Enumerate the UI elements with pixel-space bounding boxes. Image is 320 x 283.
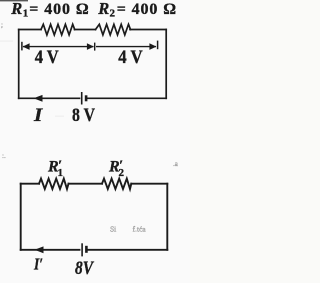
battery B1: long plate bbox=[81, 92, 83, 105]
label R'2 bbox=[108, 158, 125, 179]
svg-text:;: ; bbox=[1, 21, 3, 29]
svg-text:= 400 Ω: = 400 Ω bbox=[29, 1, 89, 18]
svg-text:1: 1 bbox=[23, 8, 29, 20]
svg-text:Si: Si bbox=[110, 225, 116, 234]
resistor R2 (zigzag) bbox=[96, 24, 131, 35]
svg-text:I: I bbox=[33, 105, 43, 126]
battery B1: short thick plate bbox=[85, 95, 88, 101]
label R2 = 400 ohm bbox=[97, 0, 177, 20]
svg-text:4 V: 4 V bbox=[118, 48, 143, 68]
svg-text:8V: 8V bbox=[75, 259, 94, 279]
wire: top circuit top side segments bbox=[19, 29, 41, 31]
svg-text::.: :. bbox=[2, 152, 6, 160]
wire: top circuit left wall bbox=[18, 30, 20, 99]
label R'1 bbox=[47, 158, 63, 179]
wire: bottom circuit top side segments bbox=[21, 183, 39, 185]
svg-text:8 V: 8 V bbox=[72, 106, 96, 126]
dimension arrowhead left bbox=[23, 43, 30, 50]
current arrow I on bottom wire bbox=[34, 95, 43, 102]
dimension tick left bbox=[21, 42, 23, 51]
label R1 = 400 ohm bbox=[10, 0, 89, 20]
svg-text:R: R bbox=[97, 0, 109, 18]
dimension arrowhead mid-left bbox=[87, 43, 94, 50]
resistor R'1 (zigzag) bbox=[39, 179, 69, 189]
wire: bottom circuit left wall bbox=[20, 184, 22, 250]
svg-text:2: 2 bbox=[110, 8, 116, 20]
wire: top circuit bottom side (battery gap) bbox=[19, 97, 80, 99]
scan smudge top edge bbox=[0, 0, 28, 1]
svg-text:I′: I′ bbox=[33, 255, 43, 274]
resistor R'2 (zigzag) bbox=[102, 179, 131, 189]
battery B2: short thick plate bbox=[85, 246, 88, 253]
wire: top circuit right wall bbox=[165, 30, 167, 99]
dimension tick right bbox=[157, 41, 159, 50]
dimension arrow line V2 (4V span) bbox=[96, 46, 156, 48]
wire: bottom circuit right wall bbox=[166, 184, 168, 250]
svg-text:R: R bbox=[10, 0, 22, 18]
svg-text:1: 1 bbox=[58, 167, 64, 179]
faint bleed-through noise bbox=[0, 21, 179, 234]
resistor R1 (zigzag) bbox=[41, 24, 75, 35]
svg-text:4 V: 4 V bbox=[35, 48, 60, 68]
wire: bottom circuit bottom side (battery gap) bbox=[21, 249, 80, 251]
battery B2: long plate bbox=[81, 243, 83, 256]
svg-text:= 400 Ω: = 400 Ω bbox=[117, 1, 177, 18]
svg-text:f.tća: f.tća bbox=[133, 225, 147, 234]
current arrow I' on bottom wire bbox=[35, 246, 44, 253]
dimension tick mid bbox=[94, 43, 96, 51]
dimension arrow line V1 (4V span) bbox=[23, 46, 94, 48]
dimension arrowhead right bbox=[149, 43, 156, 50]
